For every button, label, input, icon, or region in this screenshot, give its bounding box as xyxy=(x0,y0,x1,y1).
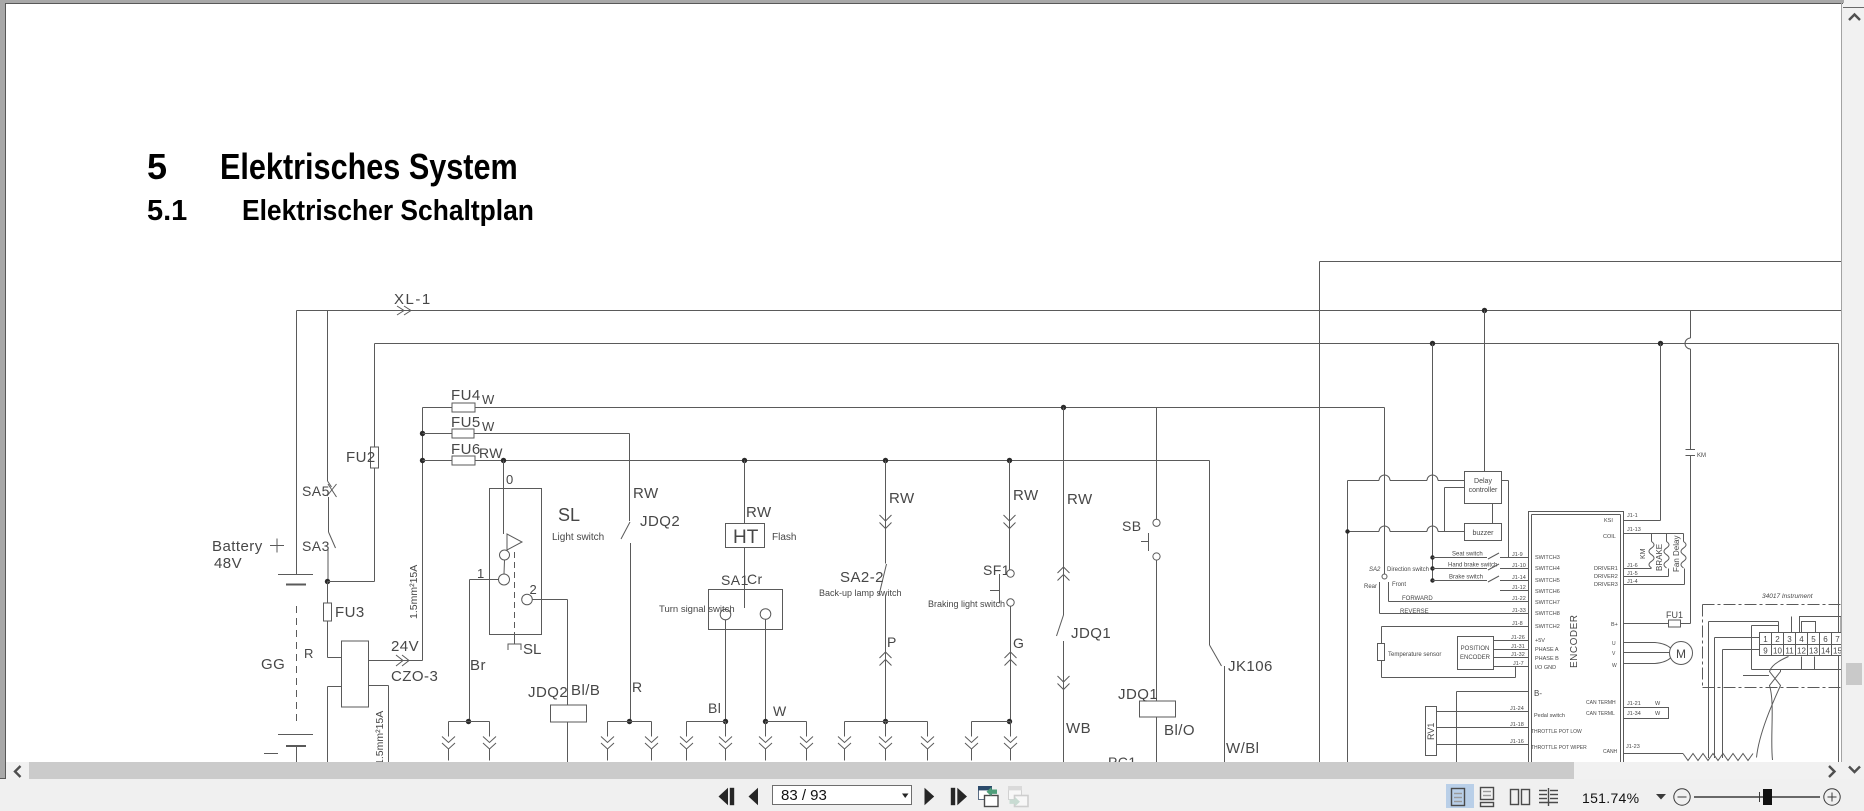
wire junction to FU2 branch xyxy=(328,581,375,583)
wire JDQ2 coil down xyxy=(567,722,569,762)
junction switch column tap xyxy=(1430,341,1435,346)
switch seat switch xyxy=(1433,557,1488,559)
link to contact 1 xyxy=(503,560,506,574)
junction SF1 tap xyxy=(1007,458,1012,463)
wire P branch bar xyxy=(845,721,928,723)
dash-dot boundary instrument bottom xyxy=(1703,687,1842,689)
wire Fan Delay coil return J1-4 xyxy=(1624,584,1685,586)
wire JK106 feed xyxy=(1209,461,1211,646)
wire switch column xyxy=(1432,344,1434,581)
harness arrow XL-1 xyxy=(397,306,404,315)
battery cell bottom short plate xyxy=(286,745,306,747)
wire instrument supply 2 xyxy=(1715,637,1760,639)
wire from contact 1 (Br) xyxy=(470,579,499,581)
inductor sawtooth winding xyxy=(1683,754,1753,761)
wire JDQ1 coil down xyxy=(1156,717,1158,762)
wire KM to FU1 xyxy=(1690,456,1692,624)
wire top bus (battery line) xyxy=(1320,261,1842,263)
junction KSI tap xyxy=(1658,341,1663,346)
harness arrow down G left xyxy=(971,722,973,737)
wire RV1 throttle pot low xyxy=(1437,727,1529,729)
relay contact JDQ1 blade xyxy=(1057,615,1064,636)
wire from contact 2 to relay JDQ2 coil xyxy=(532,599,567,601)
wire FU3 to converter xyxy=(327,621,329,658)
junction SA2-2 tap xyxy=(883,458,888,463)
pushbutton SB actuator xyxy=(1148,533,1150,551)
wire Bl branch bar xyxy=(687,721,726,723)
wire into light switch xyxy=(503,461,505,535)
minus sign of battery xyxy=(264,753,278,755)
next view icon (disabled) xyxy=(1009,787,1029,807)
wire JDQ1 contact feed RW xyxy=(1063,408,1065,616)
tick rear xyxy=(1379,582,1381,589)
wire temp sensor to I/O GND xyxy=(1515,667,1517,678)
wire encoder PHASE B xyxy=(1494,657,1529,659)
relay coil Fan Delay zigzag xyxy=(1683,534,1685,542)
harness arrow down RW SA2-2 xyxy=(880,515,892,521)
wire SB to JDQ1 coil xyxy=(1156,560,1158,701)
battery cell bottom long plate xyxy=(278,734,313,736)
contact circle 1 xyxy=(499,574,510,585)
fuse FU2 xyxy=(371,447,379,468)
twisted pair to instrument xyxy=(1757,657,1789,758)
wire instrument supply 3 xyxy=(1723,649,1760,651)
wire horizontal into delay controller with hops xyxy=(1348,480,1380,482)
junction brake switch row xyxy=(1430,578,1434,582)
contact circle SA1 left xyxy=(720,609,731,620)
motor circle M xyxy=(1670,642,1693,665)
harness arrow down P right xyxy=(927,722,929,737)
wire FU4 feed vertical xyxy=(422,408,424,661)
flasher unit HT xyxy=(726,524,765,548)
junction battery/FU3 node xyxy=(325,579,330,584)
relay coil JDQ2 xyxy=(551,705,587,722)
contact SA2 pivot xyxy=(1382,574,1387,579)
motor M1 xyxy=(1624,643,1672,649)
switch brake switch xyxy=(1433,580,1488,582)
zoom controls xyxy=(1656,789,1840,805)
wire to SA2-2 xyxy=(885,461,887,564)
wire encoder I/O GND xyxy=(1494,666,1529,668)
wire Br branch bar xyxy=(449,721,490,723)
harness arrow down WB xyxy=(1058,676,1070,682)
wire RV1 throttle pot wiper xyxy=(1437,744,1529,746)
battery cell top long plate xyxy=(278,574,313,576)
dash-dot boundary instrument left xyxy=(1702,605,1704,688)
wire SA1 right output W xyxy=(765,619,767,721)
harness arrow down turn right xyxy=(806,722,808,737)
wire BRAKE coil return J1-5 xyxy=(1624,576,1669,578)
wire R branch bar xyxy=(608,721,652,723)
junction Bl branch xyxy=(723,719,728,724)
junction delay controller tap xyxy=(1482,308,1487,313)
junction G branch xyxy=(1007,719,1012,724)
dashed actuator line in SL xyxy=(514,552,516,636)
wire JK106 down W/Bl xyxy=(1224,666,1226,762)
mechanical link symbol under SL xyxy=(508,644,521,650)
wire battery negative down xyxy=(296,746,298,762)
temperature sensor RT xyxy=(1381,627,1383,644)
fuse FU1 xyxy=(1624,623,1691,625)
pushbutton SF1 actuator xyxy=(990,590,1000,592)
junction buzzer line xyxy=(1345,529,1349,533)
junction SL tap xyxy=(501,458,506,463)
delay controller box U10 xyxy=(1465,472,1502,504)
pushbutton SF1 lower contact xyxy=(1007,599,1014,606)
wire CAN stub to twist xyxy=(1743,675,1769,677)
fuse FU6 xyxy=(452,456,475,465)
potentiometer RV1 xyxy=(1426,707,1437,756)
tick front xyxy=(1388,582,1390,589)
switch JK106 blade xyxy=(1210,645,1222,666)
wire to flasher HT xyxy=(744,461,746,524)
DC converter CZ0-3 box xyxy=(342,641,369,707)
harness arrow up JDQ1 xyxy=(1058,567,1070,573)
junction Br branch xyxy=(466,719,471,724)
turn signal switch SA1 box xyxy=(709,590,783,630)
wire encoder PHASE A xyxy=(1494,649,1529,651)
wire KSI feed xyxy=(1660,344,1662,521)
contactor contact KM xyxy=(1686,449,1696,451)
harness arrow down P mid xyxy=(885,722,887,737)
wire encoder +5V xyxy=(1494,640,1529,642)
wire FU2 to junction xyxy=(374,468,376,582)
pushbutton SF1 upper contact xyxy=(1007,570,1014,577)
pushbutton SB lower contact xyxy=(1153,553,1160,560)
junction HT tap xyxy=(742,458,747,463)
wire temp sensor down xyxy=(1381,661,1383,678)
wire delay controller lower input xyxy=(1445,487,1465,489)
light switch SL box xyxy=(490,489,542,635)
wire to delay controller xyxy=(1484,311,1486,472)
switch hand brake switch xyxy=(1433,568,1488,570)
harness arrow down turn left xyxy=(686,722,688,737)
wire SWITCH6 stub xyxy=(1500,590,1528,592)
wire KM contact feed with hop xyxy=(1690,311,1692,339)
wire 24V output xyxy=(369,660,423,662)
junction R branch xyxy=(627,719,632,724)
relay coil JDQ1 xyxy=(1140,701,1176,717)
wire KM coil return J1-6 xyxy=(1624,568,1652,570)
wire RV1 pedal switch xyxy=(1437,711,1529,713)
switch SA2-2 blade xyxy=(879,564,887,595)
contact circle 0 xyxy=(500,550,510,560)
layout icons xyxy=(1452,788,1559,807)
wire SA2-2 down P xyxy=(885,596,887,722)
wire HT to SA1 xyxy=(744,548,746,609)
junction FU6 tap xyxy=(420,458,425,463)
harness arrow down W xyxy=(765,722,767,737)
wire B- row xyxy=(1457,691,1529,693)
wire FU5 bus W xyxy=(423,433,630,435)
harness arrow up P xyxy=(880,652,892,658)
harness arrow 24V xyxy=(396,655,403,666)
harness arrow down R left xyxy=(607,722,609,737)
wire SA1 left output Bl xyxy=(725,620,727,722)
fuse FU5 xyxy=(452,429,474,438)
junction P branch xyxy=(883,719,888,724)
relay contact JDQ2 feed xyxy=(629,434,631,522)
wire delay controller output right xyxy=(1502,480,1509,482)
wire temp sensor return xyxy=(1382,677,1516,679)
buzzer HA1 xyxy=(1465,524,1502,541)
wire cell12 drop xyxy=(1801,657,1803,670)
connector housing outline above cells xyxy=(1800,617,1842,633)
relay coil KM zigzag xyxy=(1651,534,1653,542)
junction FU5 tap xyxy=(420,431,425,436)
wire cell13 drop xyxy=(1814,657,1816,670)
wire W bus right corner down xyxy=(1384,408,1386,575)
wire down left of cluster xyxy=(1347,481,1349,763)
wire JDQ2 contact down R xyxy=(630,543,632,722)
connector strip 34017 cells xyxy=(1760,633,1844,656)
harness arrow up G xyxy=(1005,652,1017,658)
harness arrow down RW SF1 xyxy=(1004,515,1016,521)
battery cell top short plate xyxy=(286,584,306,586)
plus sign of battery xyxy=(270,545,284,547)
junction JDQ1 tap on W bus xyxy=(1061,405,1066,410)
battery bank dashed link GG xyxy=(296,606,298,723)
wire CAN termination box xyxy=(1624,708,1669,719)
harness arrow down P left xyxy=(844,722,846,737)
switch SA5 xyxy=(327,311,329,482)
wire CZ0-3 right stub down xyxy=(369,685,389,687)
wire SWITCH2 row xyxy=(1382,626,1529,628)
wire XL-1 main bus (48V+) xyxy=(297,310,1842,312)
pushbutton SB upper contact xyxy=(1153,519,1160,526)
fuse FU4 xyxy=(452,403,475,412)
junction hand brake row xyxy=(1430,566,1434,570)
wire instrument loop cell2 xyxy=(1752,625,1779,627)
contact circle 2 xyxy=(522,594,533,605)
switch SA3 xyxy=(328,497,330,532)
wire into CZ0-3 xyxy=(328,657,342,659)
dash-dot boundary instrument top xyxy=(1703,604,1842,606)
wire SF1 down G xyxy=(1010,606,1012,721)
wire CZ0-3 left stub down xyxy=(328,686,342,688)
harness arrow down Br right xyxy=(489,722,491,737)
wire SB drop from W bus xyxy=(1156,408,1158,520)
wire to SF1 xyxy=(1009,461,1011,571)
pin J1-13 wire COIL xyxy=(1624,533,1684,535)
harness arrow down R right xyxy=(651,722,653,737)
wire G branch bar xyxy=(972,721,1011,723)
harness arrow down G right xyxy=(1010,722,1012,737)
wire horizontal into buzzer with hops xyxy=(1348,531,1380,533)
harness arrow down Bl xyxy=(725,722,727,737)
wire right-edge drop of second bus xyxy=(1838,344,1840,763)
wire FU6 bus RW xyxy=(423,460,1210,462)
pin J1-1 wire KSI xyxy=(1624,520,1661,522)
wire FU4 bus W xyxy=(423,407,1385,409)
wire second bus xyxy=(375,343,1839,345)
short verticals above connector xyxy=(1791,617,1793,633)
position encoder box xyxy=(1458,637,1494,670)
wire delay to buzzer xyxy=(1492,504,1494,524)
wire JDQ1 contact down WB xyxy=(1063,641,1065,762)
wire SA3 to junction xyxy=(327,548,329,582)
fuse FU3 xyxy=(327,582,329,604)
selector triangle of SL xyxy=(507,534,522,550)
harness arrow down Br left xyxy=(448,722,450,737)
relay coil BRAKE zigzag xyxy=(1666,534,1668,542)
wire instrument bottom bus xyxy=(1752,669,1842,671)
motor controller box xyxy=(1529,512,1624,763)
relay contact JDQ2 blade xyxy=(621,522,630,539)
wire instrument supply 1 xyxy=(1709,621,1779,623)
contact circle SA1 right xyxy=(760,609,771,620)
junction W branch xyxy=(763,719,768,724)
previous view icon xyxy=(979,787,999,807)
wire W branch bar xyxy=(766,721,807,723)
junction seat switch row xyxy=(1430,555,1434,559)
